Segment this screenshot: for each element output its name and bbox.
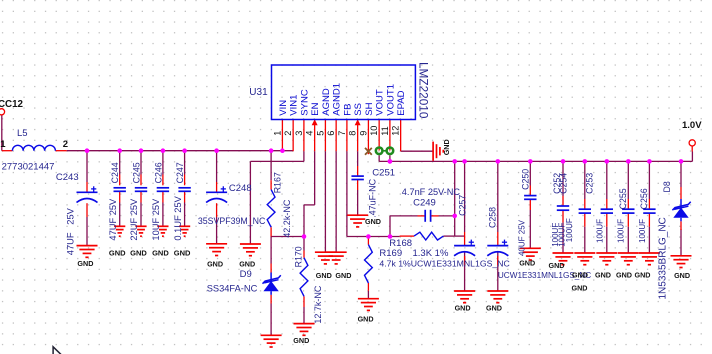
- svg-text:GND: GND: [616, 271, 632, 280]
- svg-text:4.7nF 25V-NC: 4.7nF 25V-NC: [402, 187, 461, 197]
- svg-text:EN: EN: [310, 102, 321, 115]
- svg-text:GND: GND: [572, 271, 588, 280]
- svg-text:GND: GND: [549, 261, 565, 270]
- svg-text:11: 11: [380, 126, 390, 136]
- svg-text:C247: C247: [175, 162, 185, 183]
- svg-text:GND: GND: [486, 304, 502, 313]
- svg-text:1.3K 1%: 1.3K 1%: [413, 248, 449, 259]
- svg-text:VCC12: VCC12: [0, 99, 24, 110]
- svg-text:L5: L5: [17, 128, 28, 139]
- svg-text:100UF: 100UF: [595, 219, 604, 243]
- svg-text:GND: GND: [316, 271, 332, 280]
- svg-text:D8: D8: [662, 181, 672, 192]
- svg-text:C250: C250: [521, 169, 531, 190]
- svg-text:2: 2: [63, 139, 68, 150]
- svg-text:2773021447: 2773021447: [2, 162, 55, 173]
- svg-text:GND: GND: [174, 249, 191, 258]
- svg-text:C245: C245: [132, 162, 142, 183]
- svg-text:22UF 25V: 22UF 25V: [129, 198, 139, 241]
- svg-text:R170: R170: [294, 246, 304, 267]
- svg-text:C248: C248: [229, 183, 252, 194]
- svg-text:GND: GND: [572, 284, 588, 293]
- svg-text:C243: C243: [56, 172, 79, 183]
- svg-text:GND: GND: [152, 249, 169, 258]
- svg-text:C253: C253: [584, 173, 594, 194]
- svg-text:R169: R169: [379, 248, 402, 259]
- svg-text:10UF 25V: 10UF 25V: [151, 198, 161, 241]
- svg-text:47UF 25V: 47UF 25V: [66, 207, 76, 255]
- svg-text:100UF: 100UF: [617, 219, 626, 243]
- svg-text:SS34FA-NC: SS34FA-NC: [207, 284, 258, 294]
- svg-text:47UF 25V: 47UF 25V: [108, 198, 118, 241]
- svg-text:GND: GND: [358, 315, 374, 324]
- svg-text:GND: GND: [77, 259, 93, 268]
- svg-text:2: 2: [283, 131, 293, 136]
- svg-text:GND: GND: [519, 258, 535, 267]
- svg-text:8: 8: [348, 131, 358, 136]
- svg-text:AGND: AGND: [321, 88, 332, 116]
- svg-text:GND: GND: [293, 336, 309, 345]
- svg-text:C251: C251: [372, 167, 395, 178]
- svg-text:EPAD: EPAD: [396, 90, 407, 115]
- svg-text:C257: C257: [457, 195, 467, 216]
- svg-text:4: 4: [305, 131, 315, 136]
- svg-text:VIN1: VIN1: [289, 95, 300, 116]
- svg-text:GND: GND: [674, 271, 690, 280]
- svg-text:C254: C254: [559, 173, 569, 194]
- svg-text:12: 12: [391, 126, 401, 136]
- svg-text:40UF 25V: 40UF 25V: [517, 219, 526, 256]
- svg-text:1.0V: 1.0V: [682, 120, 702, 131]
- svg-text:D9: D9: [240, 269, 252, 280]
- svg-text:GND: GND: [365, 217, 381, 226]
- svg-text:SS: SS: [353, 103, 364, 116]
- svg-text:.47uF-NC: .47uF-NC: [367, 178, 377, 218]
- svg-text:9: 9: [358, 131, 368, 136]
- svg-text:C246: C246: [153, 162, 163, 183]
- svg-text:GND: GND: [635, 271, 651, 280]
- svg-text:100UF: 100UF: [565, 218, 574, 242]
- svg-text:SYNC: SYNC: [299, 89, 310, 116]
- svg-text:4.7k 1%UCW1E331MNL1GS_NC: 4.7k 1%UCW1E331MNL1GS_NC: [379, 258, 509, 268]
- svg-text:7: 7: [337, 131, 347, 136]
- svg-text:12.7k-NC: 12.7k-NC: [313, 285, 323, 324]
- svg-text:GND: GND: [442, 139, 451, 155]
- svg-text:100UF: 100UF: [638, 219, 647, 243]
- svg-text:C258: C258: [488, 207, 498, 228]
- svg-text:C249: C249: [413, 197, 436, 208]
- svg-text:R167: R167: [272, 172, 282, 193]
- svg-text:VOUT: VOUT: [375, 89, 386, 116]
- svg-text:VOUT1: VOUT1: [385, 84, 396, 116]
- svg-text:C256: C256: [639, 188, 649, 209]
- svg-text:1: 1: [272, 131, 282, 136]
- svg-text:5: 5: [315, 131, 325, 136]
- svg-text:42.2k-NC: 42.2k-NC: [282, 199, 292, 238]
- svg-text:LMZ22010: LMZ22010: [417, 62, 431, 119]
- svg-text:6: 6: [326, 131, 336, 136]
- svg-text:0.1UF 25V: 0.1UF 25V: [173, 195, 183, 240]
- svg-text:GND: GND: [207, 259, 223, 268]
- svg-text:C255: C255: [618, 188, 628, 209]
- svg-text:AGND1: AGND1: [332, 83, 343, 116]
- svg-text:GND: GND: [130, 249, 147, 258]
- svg-text:U31: U31: [249, 87, 268, 98]
- svg-text:GND: GND: [239, 259, 255, 268]
- svg-text:GND: GND: [595, 271, 611, 280]
- svg-text:C244: C244: [110, 162, 120, 183]
- svg-text:GND: GND: [109, 249, 126, 258]
- svg-text:10: 10: [369, 126, 379, 136]
- svg-text:GND: GND: [335, 271, 351, 280]
- svg-text:FB: FB: [342, 104, 353, 116]
- svg-text:GND: GND: [455, 304, 471, 313]
- svg-text:1: 1: [0, 139, 6, 150]
- svg-text:SH: SH: [364, 102, 375, 115]
- svg-text:35SVPF39M_NC: 35SVPF39M_NC: [198, 216, 266, 226]
- svg-text:VIN: VIN: [278, 100, 289, 116]
- svg-text:1N5335BRLG_NC: 1N5335BRLG_NC: [658, 217, 669, 299]
- svg-text:3: 3: [294, 131, 304, 136]
